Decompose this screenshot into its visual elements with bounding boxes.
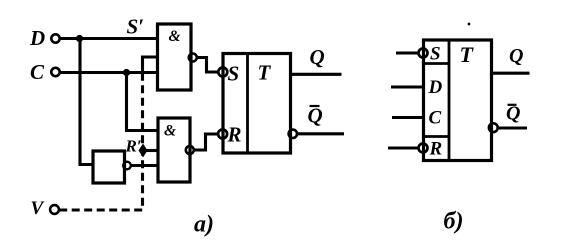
wire D down to inverter U3: [80, 39, 93, 165]
latch U4 (T) box: [223, 54, 291, 154]
svg-text:S: S: [228, 62, 240, 86]
input terminal C: [51, 68, 59, 76]
svg-text:R: R: [227, 123, 242, 147]
svg-text:Q: Q: [509, 45, 523, 67]
svg-text:D: D: [29, 26, 45, 50]
flip-flop U5 divider vertical: [448, 40, 451, 161]
wire V branch to gate U2: [143, 149, 158, 152]
gate U1 output bubble: [189, 54, 197, 62]
svg-text:R′: R′: [125, 137, 142, 156]
gate U2 output bubble: [186, 146, 194, 154]
wire input R (fig b): [388, 146, 418, 149]
svg-text:Q: Q: [310, 45, 325, 69]
gate U1 (&amp; NAND) box: [158, 24, 192, 90]
wire C down to gate U2: [127, 73, 159, 131]
latch U4 divider: [246, 54, 249, 154]
wire output Q (fig a): [291, 73, 342, 76]
latch R input bubble: [218, 130, 227, 139]
svg-text:S′: S′: [127, 15, 145, 39]
latch S input bubble: [218, 68, 227, 77]
S input bubble (fig b): [419, 49, 428, 58]
wire input C (fig b): [392, 116, 424, 119]
inverter U3 output bubble: [123, 162, 131, 170]
junction on C wire: [123, 69, 130, 76]
wire output Q-bar (fig b): [498, 126, 527, 129]
svg-text:D: D: [428, 77, 443, 98]
input terminal V: [50, 205, 59, 214]
flip-flop U5 box (fig b): [424, 40, 492, 161]
svg-text:&: &: [169, 28, 181, 45]
svg-text:б): б): [444, 209, 464, 235]
junction on D wire: [76, 35, 83, 42]
svg-text:V: V: [31, 198, 45, 219]
label Q-bar overbar (fig a): [310, 105, 320, 107]
gate U2 (&amp; NAND) box: [158, 118, 190, 182]
svg-text:C: C: [30, 60, 45, 84]
flip-flop U5 divider under S: [424, 62, 450, 65]
R input bubble (fig b): [419, 144, 428, 153]
wire gate U1 output to S input: [197, 58, 218, 73]
wire V solid elbow into gate U1: [143, 57, 159, 80]
wire input D (fig b): [391, 85, 424, 88]
junction diamond on V wire: [139, 144, 148, 158]
label Q-bar overbar (fig b): [508, 104, 517, 106]
wire inverter output to gate U2: [131, 164, 158, 167]
wire C horizontal to gate U1: [60, 71, 158, 74]
latch Q-bar output bubble: [289, 130, 297, 138]
wire D horizontal to gate U1: [60, 37, 158, 40]
input terminal D: [51, 34, 59, 42]
Q-bar output bubble (fig b): [489, 123, 498, 132]
svg-text:R: R: [429, 139, 443, 160]
svg-text:T: T: [258, 61, 272, 85]
wire V dashed to gate U1: [59, 79, 142, 210]
inverter U3 box: [93, 151, 125, 183]
svg-text:C: C: [429, 108, 442, 129]
wire output Q-bar (fig a): [297, 132, 344, 135]
flip-flop U5 divider above R: [424, 135, 450, 138]
svg-text:S: S: [430, 44, 441, 65]
wire input S (fig b): [396, 51, 418, 54]
wire output Q (fig b): [492, 72, 530, 75]
svg-text:а): а): [194, 212, 214, 238]
svg-text:&: &: [164, 123, 176, 140]
svg-text:T: T: [460, 42, 475, 67]
speck above box (fig b): [468, 23, 471, 26]
wire gate U2 output to R input: [194, 134, 218, 150]
